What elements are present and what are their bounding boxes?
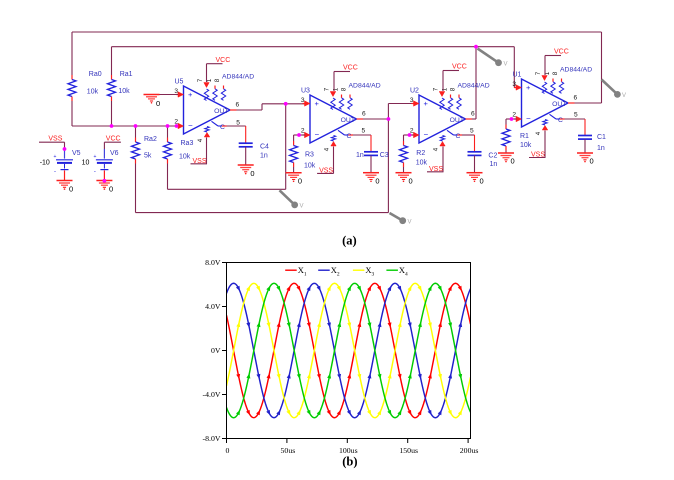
svg-text:8: 8 bbox=[214, 78, 221, 82]
svg-text:+: + bbox=[315, 99, 320, 108]
svg-text:OUT: OUT bbox=[450, 117, 464, 124]
svg-text:10k: 10k bbox=[179, 154, 191, 161]
svg-text:C1: C1 bbox=[597, 134, 606, 141]
svg-text:4: 4 bbox=[535, 131, 542, 135]
svg-text:+: + bbox=[93, 154, 96, 160]
svg-text:VCC: VCC bbox=[106, 136, 121, 143]
svg-text:-10: -10 bbox=[40, 159, 50, 166]
svg-text:+: + bbox=[54, 154, 57, 160]
svg-text:0: 0 bbox=[69, 185, 73, 194]
svg-text:−: − bbox=[315, 130, 320, 139]
svg-text:+: + bbox=[424, 99, 429, 108]
svg-text:0: 0 bbox=[226, 446, 230, 455]
svg-text:VSS: VSS bbox=[429, 166, 443, 173]
svg-text:0: 0 bbox=[511, 157, 515, 166]
svg-text:10k: 10k bbox=[304, 163, 316, 170]
svg-text:0: 0 bbox=[156, 99, 160, 108]
svg-text:5: 5 bbox=[574, 112, 578, 119]
svg-text:1n: 1n bbox=[597, 145, 605, 152]
svg-text:C: C bbox=[347, 133, 352, 140]
svg-text:8: 8 bbox=[341, 87, 348, 91]
svg-text:U5: U5 bbox=[175, 79, 184, 86]
svg-text:R2: R2 bbox=[416, 150, 425, 157]
svg-text:8: 8 bbox=[552, 71, 559, 75]
svg-text:-: - bbox=[94, 169, 96, 175]
svg-text:3: 3 bbox=[512, 81, 516, 88]
svg-text:6: 6 bbox=[471, 111, 475, 118]
svg-text:8: 8 bbox=[450, 87, 457, 91]
svg-text:OUT: OUT bbox=[552, 101, 566, 108]
svg-text:AD844/AD: AD844/AD bbox=[349, 83, 381, 90]
svg-text:VCC: VCC bbox=[216, 57, 231, 64]
svg-text:150us: 150us bbox=[399, 446, 418, 455]
svg-text:VSS: VSS bbox=[531, 152, 545, 159]
svg-text:VCC: VCC bbox=[343, 65, 358, 72]
svg-text:V: V bbox=[622, 93, 626, 99]
svg-text:V: V bbox=[300, 204, 304, 210]
svg-text:10k: 10k bbox=[520, 142, 532, 149]
svg-text:7: 7 bbox=[433, 87, 440, 91]
svg-text:10k: 10k bbox=[118, 88, 130, 95]
svg-text:1n: 1n bbox=[260, 153, 268, 160]
svg-text:-: - bbox=[54, 169, 56, 175]
svg-text:V6: V6 bbox=[110, 150, 119, 157]
svg-text:5: 5 bbox=[362, 128, 366, 135]
svg-text:V5: V5 bbox=[72, 150, 81, 157]
svg-text:1n: 1n bbox=[490, 161, 498, 168]
svg-text:4.0V: 4.0V bbox=[205, 302, 221, 311]
svg-text:C: C bbox=[456, 133, 461, 140]
svg-text:50us: 50us bbox=[281, 446, 296, 455]
svg-text:3: 3 bbox=[410, 97, 414, 104]
svg-text:200us: 200us bbox=[460, 446, 479, 455]
svg-text:4: 4 bbox=[323, 147, 330, 151]
svg-text:5: 5 bbox=[470, 128, 474, 135]
svg-text:C2: C2 bbox=[488, 153, 497, 160]
svg-text:Ra1: Ra1 bbox=[120, 71, 133, 78]
svg-text:VCC: VCC bbox=[554, 49, 569, 56]
svg-text:−: − bbox=[526, 114, 531, 123]
svg-text:C: C bbox=[558, 117, 563, 124]
svg-text:6: 6 bbox=[236, 102, 240, 109]
svg-text:VSS: VSS bbox=[193, 158, 207, 165]
svg-text:AD844/AD: AD844/AD bbox=[222, 74, 254, 81]
svg-text:+: + bbox=[526, 83, 531, 92]
svg-text:2: 2 bbox=[301, 128, 305, 135]
svg-text:-4.0V: -4.0V bbox=[203, 390, 221, 399]
svg-text:0: 0 bbox=[109, 185, 113, 194]
svg-text:+: + bbox=[188, 90, 193, 99]
svg-text:U1: U1 bbox=[513, 72, 522, 79]
svg-text:R3: R3 bbox=[305, 152, 314, 159]
svg-text:C3: C3 bbox=[380, 152, 389, 159]
svg-text:−: − bbox=[424, 130, 429, 139]
svg-text:AD844/AD: AD844/AD bbox=[560, 67, 592, 74]
svg-text:10: 10 bbox=[82, 159, 90, 166]
svg-text:3: 3 bbox=[301, 97, 305, 104]
svg-text:0V: 0V bbox=[211, 346, 221, 355]
svg-text:U3: U3 bbox=[301, 88, 310, 95]
svg-text:8.0V: 8.0V bbox=[205, 258, 221, 267]
svg-text:0: 0 bbox=[298, 177, 302, 186]
svg-text:1n: 1n bbox=[356, 152, 364, 159]
svg-text:U2: U2 bbox=[410, 88, 419, 95]
svg-text:5: 5 bbox=[236, 119, 240, 126]
svg-text:C: C bbox=[220, 124, 225, 131]
svg-text:0: 0 bbox=[409, 177, 413, 186]
svg-text:0: 0 bbox=[375, 177, 379, 186]
svg-text:6: 6 bbox=[574, 95, 578, 102]
svg-text:7: 7 bbox=[197, 78, 204, 82]
svg-text:4: 4 bbox=[432, 147, 439, 151]
svg-text:-8.0V: -8.0V bbox=[203, 434, 221, 443]
svg-text:Ra3: Ra3 bbox=[181, 140, 194, 147]
svg-text:V: V bbox=[504, 62, 508, 68]
svg-text:10k: 10k bbox=[87, 88, 99, 95]
svg-text:Ra2: Ra2 bbox=[144, 136, 157, 143]
svg-text:2: 2 bbox=[512, 112, 516, 119]
svg-text:4: 4 bbox=[197, 138, 204, 142]
svg-text:5k: 5k bbox=[144, 153, 152, 160]
svg-text:V: V bbox=[408, 220, 412, 226]
svg-text:0: 0 bbox=[590, 157, 594, 166]
svg-text:C4: C4 bbox=[260, 144, 269, 151]
svg-text:VCC: VCC bbox=[452, 64, 467, 71]
svg-text:AD844/AD: AD844/AD bbox=[458, 83, 490, 90]
svg-text:Ra0: Ra0 bbox=[89, 71, 102, 78]
svg-text:6: 6 bbox=[362, 111, 366, 118]
svg-text:0: 0 bbox=[480, 177, 484, 186]
svg-text:0: 0 bbox=[250, 169, 254, 178]
svg-text:VSS: VSS bbox=[48, 136, 62, 143]
svg-text:(b): (b) bbox=[342, 455, 357, 469]
svg-text:OUT: OUT bbox=[214, 108, 228, 115]
svg-text:R1: R1 bbox=[520, 133, 529, 140]
svg-text:−: − bbox=[188, 121, 193, 130]
svg-text:10k: 10k bbox=[416, 160, 428, 167]
svg-text:OUT: OUT bbox=[341, 117, 355, 124]
svg-text:7: 7 bbox=[535, 71, 542, 75]
svg-text:VSS: VSS bbox=[319, 167, 333, 174]
svg-text:(a): (a) bbox=[342, 234, 357, 248]
svg-text:7: 7 bbox=[324, 87, 331, 91]
